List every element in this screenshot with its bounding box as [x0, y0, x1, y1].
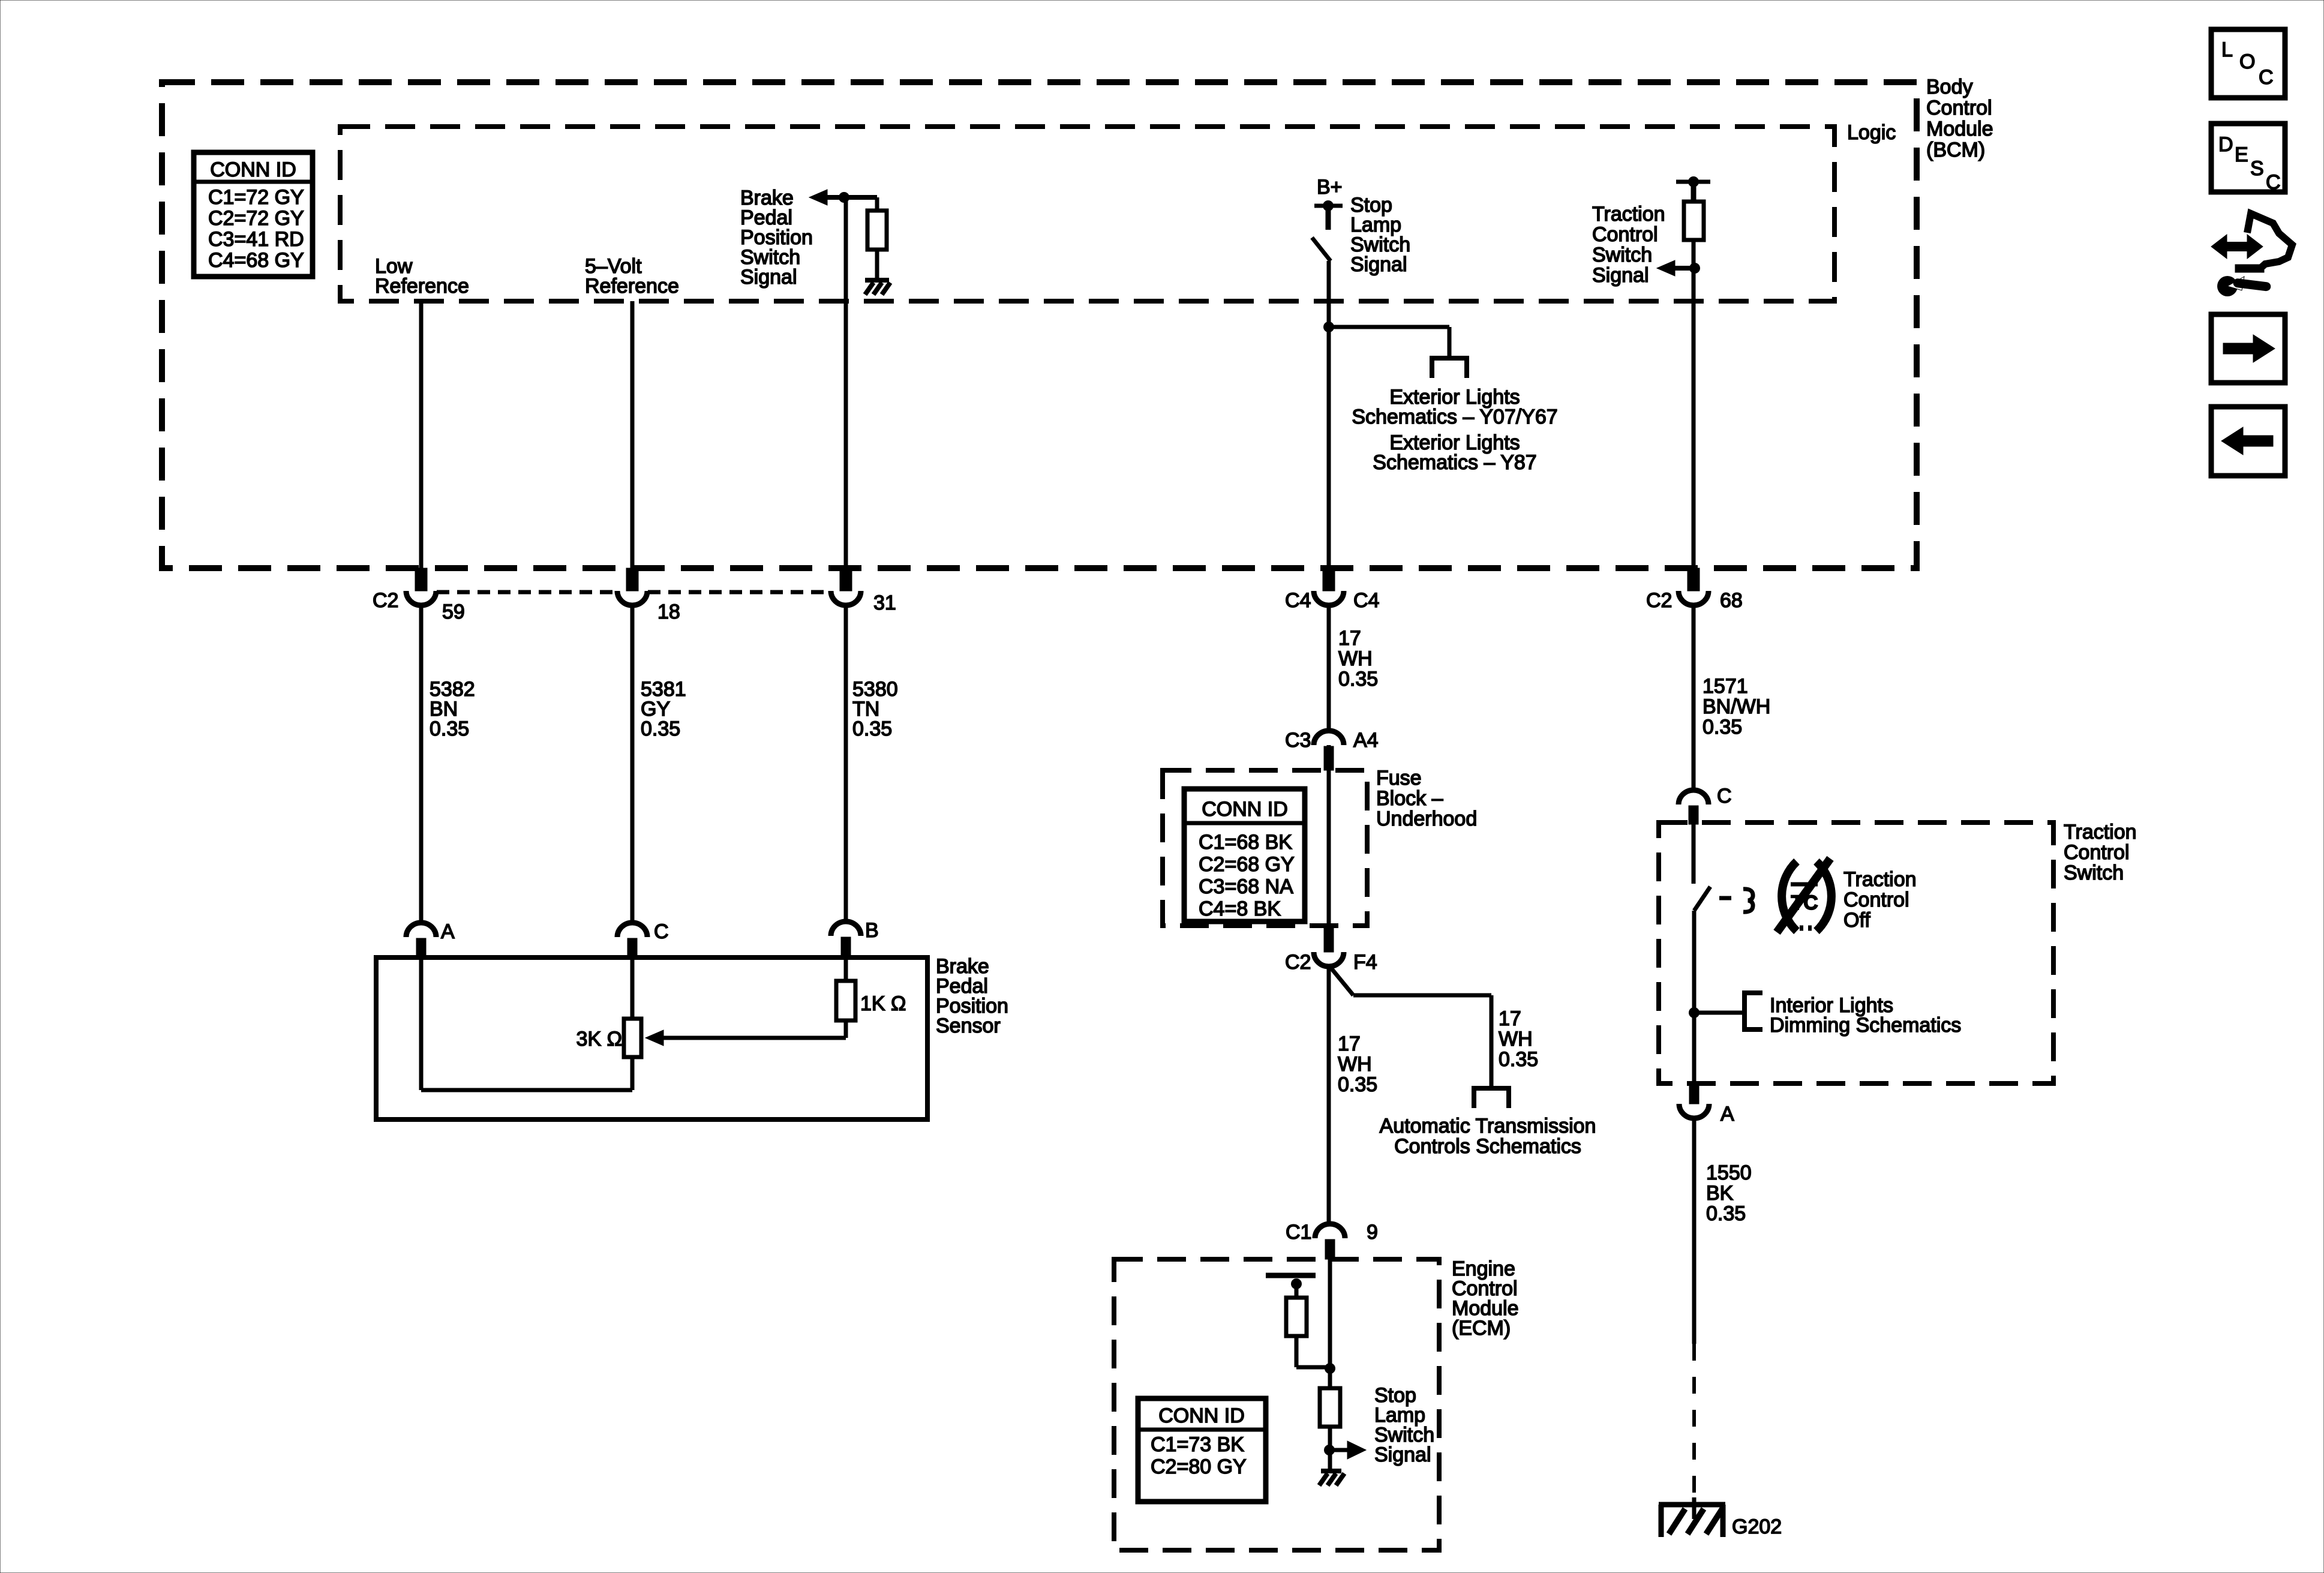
svg-text:C: C	[2266, 171, 2281, 194]
Traction Control Switch dashed box	[1659, 822, 2053, 1083]
stop lamp switch blade	[1312, 238, 1331, 261]
B+ supply bar	[1314, 204, 1343, 208]
svg-text:C: C	[1717, 785, 1732, 807]
junction node traction signal	[1689, 263, 1700, 274]
svg-text:Control: Control	[2064, 841, 2130, 864]
svg-text:Traction: Traction	[1592, 203, 1665, 226]
svg-text:Traction: Traction	[1843, 868, 1917, 891]
svg-text:E: E	[2235, 143, 2248, 166]
wire from F4 with branch diagonal	[1329, 965, 1353, 995]
svg-text:0.35: 0.35	[852, 718, 892, 740]
svg-text:Module: Module	[1926, 118, 1993, 140]
svg-text:Signal: Signal	[740, 266, 797, 289]
svg-text:C3=68 NA: C3=68 NA	[1199, 875, 1293, 898]
connector A at traction switch	[1689, 1083, 1699, 1104]
svg-text:59: 59	[442, 601, 465, 623]
connector row dotted line	[437, 590, 617, 595]
svg-text:L: L	[2221, 38, 2233, 61]
ground G202	[1659, 1502, 1725, 1508]
connector B at sensor	[831, 921, 861, 936]
wire brake pedal position switch signal	[844, 197, 848, 568]
svg-text:WH: WH	[1499, 1028, 1533, 1050]
ground (BCM internal)	[865, 278, 889, 283]
svg-text:0.35: 0.35	[430, 718, 469, 740]
svg-text:F4: F4	[1353, 951, 1377, 974]
connector C2 pin F4	[1324, 926, 1334, 952]
ground (ECM internal)	[1321, 1469, 1341, 1473]
connector C1 pin 9	[1315, 1224, 1345, 1238]
connector C4 pin C4 (stop lamp)	[1323, 568, 1335, 591]
svg-text:G202: G202	[1732, 1515, 1782, 1538]
svg-text:C2=80 GY: C2=80 GY	[1151, 1455, 1247, 1478]
svg-text:3K Ω: 3K Ω	[577, 1028, 622, 1050]
svg-text:Automatic Transmission: Automatic Transmission	[1380, 1115, 1596, 1137]
svg-text:Body: Body	[1926, 76, 1973, 98]
off-page pointer automatic transmission	[1472, 1086, 1511, 1091]
branch to interior lights dimming	[1694, 1011, 1744, 1015]
svg-text:C2=68 GY: C2=68 GY	[1199, 853, 1295, 876]
svg-text:Underhood: Underhood	[1376, 807, 1477, 830]
sidebar back arrow box	[2211, 407, 2285, 476]
svg-text:C1=73 BK: C1=73 BK	[1151, 1433, 1244, 1456]
svg-text:C3=41 RD: C3=41 RD	[208, 228, 304, 251]
svg-text:0.35: 0.35	[1499, 1048, 1538, 1071]
svg-text:WH: WH	[1338, 647, 1373, 670]
wire 17 WH top	[1327, 605, 1331, 729]
Logic inner dashed box	[340, 127, 1834, 301]
svg-text:D: D	[2218, 133, 2233, 156]
svg-text:Control: Control	[1843, 888, 1909, 911]
svg-text:C2=72 GY: C2=72 GY	[208, 207, 304, 230]
connector C3 pin A4	[1314, 731, 1344, 745]
svg-text:CONN ID: CONN ID	[1158, 1404, 1245, 1427]
connector A at sensor	[406, 923, 436, 937]
connector C2 pin 59	[415, 568, 427, 591]
svg-text:Control: Control	[1592, 223, 1658, 246]
svg-text:0.35: 0.35	[1338, 1073, 1377, 1096]
Engine Control Module dashed box	[1114, 1259, 1439, 1550]
svg-text:C3: C3	[1285, 729, 1311, 752]
junction node stop lamp switch signal (ECM)	[1324, 1445, 1335, 1455]
svg-text:17: 17	[1499, 1007, 1521, 1030]
svg-text:C: C	[2259, 66, 2274, 89]
wire 17 WH to ECM	[1327, 965, 1331, 1223]
svg-text:O: O	[2239, 50, 2255, 73]
connector C2 pin 68 (traction)	[1688, 568, 1700, 591]
wire 1550 BK dashed to ground	[1692, 1344, 1696, 1507]
svg-text:B: B	[865, 919, 879, 942]
resistor (BCM internal, traction control)	[1684, 202, 1704, 240]
sidebar LOC box	[2211, 29, 2285, 98]
svg-text:Schematics – Y87: Schematics – Y87	[1373, 451, 1536, 474]
svg-text:Traction: Traction	[2064, 821, 2137, 843]
svg-text:Signal: Signal	[1374, 1443, 1431, 1466]
svg-text:Reference: Reference	[375, 275, 469, 298]
svg-text:C4=8 BK: C4=8 BK	[1199, 897, 1281, 920]
svg-text:Schematics – Y07/Y67: Schematics – Y07/Y67	[1352, 406, 1557, 428]
sidebar forward arrow box	[2211, 314, 2285, 383]
traction switch wire lower	[1692, 911, 1697, 1083]
svg-text:Off: Off	[1843, 909, 1870, 932]
junction node interior lights	[1689, 1007, 1700, 1018]
svg-text:C1: C1	[1286, 1221, 1311, 1244]
svg-text:0.35: 0.35	[1338, 668, 1378, 691]
svg-text:Sensor: Sensor	[936, 1014, 1001, 1037]
svg-text:A: A	[441, 920, 455, 943]
stop lamp switch contact stub	[1326, 206, 1331, 230]
wire 1571 BN/WH	[1692, 605, 1696, 788]
CONN ID table (fuse block)	[1184, 789, 1305, 921]
svg-text:18: 18	[657, 601, 680, 623]
svg-text:1K Ω: 1K Ω	[860, 992, 906, 1015]
arrow Stop Lamp Switch Signal (ECM)	[1329, 1448, 1349, 1452]
svg-text:C1=68 BK: C1=68 BK	[1199, 831, 1292, 854]
svg-text:C4=68 GY: C4=68 GY	[208, 249, 304, 272]
BCM outer dashed box	[162, 82, 1917, 568]
resistor (BCM internal pull, brake pedal position)	[875, 197, 879, 211]
svg-text:C4: C4	[1353, 589, 1379, 612]
sensor wire C internal	[630, 957, 635, 1019]
traction switch blade	[1694, 887, 1710, 911]
svg-text:BK: BK	[1706, 1182, 1734, 1205]
svg-text:C4: C4	[1285, 589, 1311, 612]
junction node on wire 5380	[839, 192, 849, 203]
svg-text:Control: Control	[1926, 97, 1992, 119]
svg-text:Block –: Block –	[1376, 787, 1443, 810]
svg-text:Switch: Switch	[2064, 861, 2124, 884]
ECM internal supply bar	[1266, 1273, 1316, 1278]
off-page pointer exterior lights	[1430, 356, 1469, 361]
svg-text:Logic: Logic	[1847, 121, 1896, 144]
svg-text:Signal: Signal	[1350, 253, 1407, 276]
ECM series resistor	[1320, 1388, 1340, 1427]
resistor 1K	[844, 957, 848, 981]
wire 5380 TN	[844, 605, 848, 921]
svg-text:WH: WH	[1338, 1053, 1372, 1076]
TC off icon	[1782, 861, 1797, 931]
svg-text:C2: C2	[1646, 589, 1672, 612]
junction node stop lamp branch	[1323, 322, 1334, 332]
potentiometer 3K	[624, 1019, 641, 1057]
svg-text:A4: A4	[1353, 729, 1379, 752]
svg-text:Signal: Signal	[1592, 264, 1649, 287]
wire 1550 BK	[1692, 1118, 1697, 1344]
ECM main wire	[1328, 1259, 1332, 1388]
Brake Pedal Position Sensor box	[376, 957, 927, 1119]
traction B+ bar	[1676, 180, 1710, 184]
svg-text:Switch: Switch	[1592, 244, 1652, 266]
wire traction signal	[1692, 240, 1696, 568]
connector C2 pin 31	[840, 568, 852, 591]
svg-text:1571: 1571	[1703, 675, 1748, 698]
svg-text:C2: C2	[1285, 951, 1311, 974]
ECM pull-up resistor	[1295, 1284, 1299, 1298]
svg-text:CONN ID: CONN ID	[210, 158, 296, 181]
svg-text:BN/WH: BN/WH	[1703, 695, 1770, 718]
svg-text:0.35: 0.35	[1703, 716, 1742, 739]
svg-text:31: 31	[873, 592, 896, 614]
svg-text:C1=72 GY: C1=72 GY	[208, 186, 304, 209]
svg-text:A: A	[1721, 1103, 1734, 1125]
wire through fuse block	[1327, 770, 1331, 926]
traction switch wire upper	[1692, 824, 1696, 884]
svg-text:68: 68	[1720, 589, 1743, 612]
potentiometer wiper arrow	[645, 1030, 663, 1046]
wire 5-volt reference	[630, 301, 635, 568]
CONN ID table (ECM)	[1138, 1398, 1266, 1502]
sensor wire A internal	[419, 957, 424, 1090]
svg-text:9: 9	[1367, 1221, 1378, 1244]
svg-text:0.35: 0.35	[1706, 1202, 1746, 1225]
branch wire to exterior lights	[1329, 325, 1449, 329]
wire stop lamp switch signal	[1327, 261, 1331, 568]
svg-text:C: C	[654, 920, 669, 943]
svg-text:17: 17	[1338, 1032, 1361, 1055]
junction node ECM pull-up	[1325, 1363, 1335, 1374]
arrow to Brake Pedal Position Switch Signal	[809, 190, 827, 205]
svg-text:17: 17	[1338, 627, 1361, 650]
svg-text:S: S	[2250, 157, 2264, 180]
wire low reference	[419, 301, 424, 568]
svg-text:C2: C2	[373, 589, 398, 612]
svg-text:CONN ID: CONN ID	[1202, 798, 1288, 821]
traction switch momentary contact	[1719, 896, 1731, 900]
connector C at sensor	[617, 923, 647, 937]
arrow to Traction Control Switch Signal label	[1674, 266, 1694, 271]
svg-text:Controls Schematics: Controls Schematics	[1394, 1135, 1581, 1158]
wire 5382 BN	[419, 605, 424, 922]
svg-text:Reference: Reference	[585, 275, 679, 298]
svg-text:(BCM): (BCM)	[1926, 139, 1985, 161]
svg-text:0.35: 0.35	[641, 718, 680, 740]
svg-text:B+: B+	[1317, 176, 1343, 199]
connector C at traction switch	[1679, 790, 1709, 804]
wire 17 WH into fuse block	[1327, 745, 1331, 770]
CONN ID table (BCM)	[194, 152, 313, 277]
sidebar DESC box	[2211, 124, 2285, 192]
svg-text:1550: 1550	[1706, 1161, 1752, 1184]
connector C2 pin 18	[626, 568, 638, 591]
Fuse Block - Underhood dashed box	[1163, 770, 1367, 926]
sidebar repair icon	[2225, 242, 2249, 251]
svg-text:(ECM): (ECM)	[1452, 1317, 1511, 1340]
wire 5381 GY	[630, 605, 635, 922]
svg-text:Fuse: Fuse	[1376, 767, 1422, 789]
svg-text:Dimming Schematics: Dimming Schematics	[1770, 1014, 1961, 1037]
